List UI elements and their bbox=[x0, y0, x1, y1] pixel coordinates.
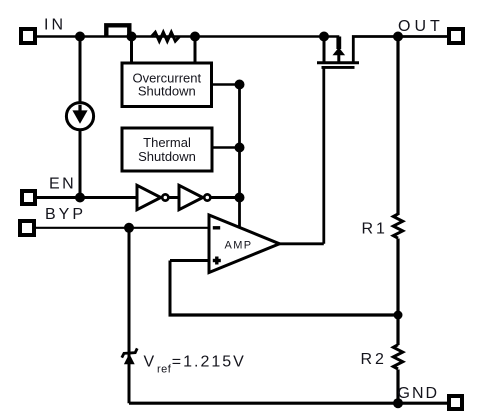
wire feedback vertical bbox=[169, 261, 172, 316]
svg-text:R1: R1 bbox=[362, 220, 388, 237]
pin IN bbox=[21, 29, 35, 43]
shutdown rail vertical bbox=[238, 85, 241, 228]
body stub with arrow bbox=[336, 37, 341, 50]
resistor (current limit sense) horizontal zigzag bbox=[151, 32, 179, 41]
node EN junction bbox=[75, 193, 85, 203]
node BYP / Vref junction bbox=[124, 223, 134, 233]
svg-text:BYP: BYP bbox=[45, 206, 86, 223]
pin GND bbox=[449, 396, 462, 409]
node: sense resistor right bbox=[190, 32, 200, 42]
node on rail at Overcurrent bbox=[235, 80, 245, 90]
minus sign bbox=[213, 226, 220, 229]
wire BYP to AMP inverting input bbox=[36, 227, 209, 229]
node OUT junction bbox=[393, 32, 403, 42]
current source I1 bbox=[66, 103, 93, 130]
svg-text:=1.215V: =1.215V bbox=[172, 354, 246, 371]
wire current source down to EN node bbox=[79, 130, 82, 198]
drain stub and wire to OUT bbox=[353, 37, 449, 63]
wire sense-right down to Overcurrent box bbox=[194, 37, 197, 64]
svg-text:Shutdown: Shutdown bbox=[138, 84, 196, 99]
zener diode Vref bbox=[124, 354, 135, 365]
svg-text:AMP: AMP bbox=[225, 239, 253, 251]
svg-text:Thermal: Thermal bbox=[143, 135, 191, 150]
svg-text:V: V bbox=[144, 354, 155, 371]
wire Vref vertical from BYP node bbox=[128, 228, 131, 403]
wire Thermal box to shutdown rail bbox=[212, 146, 240, 149]
wire OUT rail down to R1 bbox=[396, 37, 399, 216]
inverter U3 bbox=[179, 185, 203, 209]
node divider tap bbox=[394, 311, 403, 320]
wire Overcurrent box to shutdown rail bbox=[212, 83, 240, 86]
plus sign bbox=[213, 259, 221, 262]
svg-text:EN: EN bbox=[49, 176, 76, 193]
wire inverter1 to inverter2 bbox=[169, 196, 180, 199]
svg-text:OUT: OUT bbox=[398, 18, 444, 35]
node ground junction bbox=[393, 398, 403, 408]
wire feedback horizontal to divider tap bbox=[169, 313, 399, 316]
channel bar bbox=[317, 61, 359, 64]
resistor R2 bbox=[393, 345, 402, 369]
source stub bbox=[323, 37, 326, 63]
op-amp AMP bbox=[209, 215, 280, 273]
wire tap to R2 bbox=[396, 315, 399, 345]
pin EN bbox=[22, 191, 35, 204]
wire R1 to tap bbox=[396, 239, 399, 316]
node: sense resistor left bbox=[127, 32, 137, 42]
wire ground bottom bbox=[129, 402, 449, 405]
wire inverter2 to shutdown rail bbox=[211, 196, 240, 199]
wire R2 to ground rail bbox=[396, 370, 399, 404]
pin OUT bbox=[449, 29, 463, 43]
svg-text:IN: IN bbox=[44, 17, 66, 34]
current sense staple over IN wire bbox=[106, 25, 129, 36]
wire IN to MOSFET source (top rail) bbox=[37, 35, 339, 38]
svg-text:R2: R2 bbox=[361, 351, 387, 368]
node source on top rail bbox=[319, 32, 329, 42]
wire IN junction down to current source bbox=[79, 37, 82, 103]
svg-text:ref: ref bbox=[157, 363, 172, 375]
block Overcurrent Shutdown bbox=[122, 63, 212, 107]
block Thermal Shutdown bbox=[122, 128, 212, 171]
gate bar bbox=[322, 66, 355, 69]
svg-text:Shutdown: Shutdown bbox=[138, 149, 196, 164]
node rail at inverter output bbox=[235, 193, 245, 203]
resistor R1 bbox=[393, 214, 402, 238]
node: IN junction bbox=[75, 32, 85, 42]
wire AMP noninverting input bbox=[170, 259, 209, 262]
svg-text:GND: GND bbox=[398, 385, 440, 402]
wire sense-left down to Overcurrent box bbox=[130, 37, 133, 64]
inverter U2 bbox=[137, 185, 161, 209]
pin BYP bbox=[20, 221, 34, 235]
wire gate vertical bbox=[322, 67, 325, 243]
wire AMP output bbox=[280, 242, 324, 245]
wire EN to inverter 1 bbox=[35, 196, 137, 199]
node on rail at Thermal bbox=[235, 143, 245, 153]
